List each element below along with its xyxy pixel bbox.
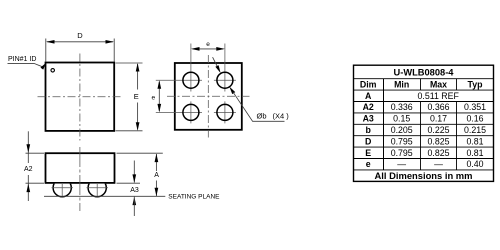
- svg-text:0.336: 0.336: [391, 102, 413, 112]
- pin1 leader arrowhead: [40, 63, 45, 70]
- side view ball 1: [53, 179, 106, 197]
- D dim arrow left: [46, 40, 55, 44]
- pin1 leader line: [8, 63, 43, 66]
- svg-text:b: b: [366, 125, 372, 135]
- svg-text:Max: Max: [430, 79, 447, 89]
- A dimension upper line: [155, 154, 157, 171]
- svg-text:0.825: 0.825: [427, 136, 449, 146]
- table outer border: [354, 65, 494, 181]
- diameter leader upper segment: [213, 57, 218, 68]
- svg-text:E: E: [365, 148, 371, 158]
- A dimension lower line: [155, 181, 157, 197]
- table horizontal line under row D: [354, 146, 494, 148]
- svg-text:0.15: 0.15: [393, 114, 410, 124]
- svg-text:0.825: 0.825: [427, 148, 449, 158]
- ball bottom-left: [183, 104, 199, 120]
- svg-text:(X4 ): (X4 ): [273, 112, 290, 121]
- D extension line left: [45, 39, 47, 62]
- svg-text:Dim: Dim: [360, 79, 377, 89]
- ball TR crosshair vertical / e extension: [224, 44, 226, 92]
- svg-text:A3: A3: [130, 187, 139, 194]
- side view centerline: [79, 147, 81, 211]
- side view body: [46, 153, 115, 183]
- E dim arrow top: [136, 63, 140, 72]
- A extension line: [117, 152, 163, 154]
- top e arrow right: [216, 47, 225, 51]
- svg-text:SEATING PLANE: SEATING PLANE: [168, 194, 220, 201]
- svg-text:e: e: [366, 159, 371, 169]
- A3 arrow down: [132, 174, 136, 183]
- svg-text:0.205: 0.205: [391, 125, 413, 135]
- A3 arrow up: [132, 197, 136, 206]
- A3 extension line: [117, 182, 141, 184]
- svg-text:—: —: [397, 159, 406, 169]
- svg-text:0.225: 0.225: [427, 125, 449, 135]
- D extension line right: [113, 39, 115, 62]
- ball bottom-right: [217, 104, 233, 120]
- diameter leader arrow lower: [229, 87, 235, 95]
- A2 extension line bottom: [26, 182, 45, 184]
- ball top-right: [217, 72, 233, 88]
- table vertical line col1: [383, 79, 385, 170]
- ball TL crosshair horizontal / e extension: [156, 79, 202, 81]
- svg-text:A2: A2: [24, 166, 33, 173]
- table horizontal line under header: [354, 89, 494, 91]
- E dimension line upper: [137, 64, 139, 90]
- ball BL crosshair horizontal / e extension: [156, 111, 202, 113]
- table vertical line col2 upper: [420, 79, 422, 90]
- A3 dimension upper line: [133, 161, 135, 183]
- E extension line top: [116, 62, 143, 64]
- table vertical line col3 upper: [456, 79, 458, 90]
- svg-text:0.795: 0.795: [391, 136, 413, 146]
- svg-text:Min: Min: [394, 79, 409, 89]
- ball BR crosshair horizontal: [214, 111, 236, 113]
- svg-text:Øb: Øb: [257, 112, 267, 121]
- svg-text:D: D: [365, 136, 371, 146]
- svg-text:0.16: 0.16: [466, 114, 483, 124]
- table horizontal line under row A: [354, 101, 494, 103]
- top e dimension line: [193, 48, 224, 50]
- table vertical line col3 lower: [456, 102, 458, 170]
- bottom view package outline: [175, 63, 242, 130]
- table horizontal line under row b: [354, 135, 494, 137]
- left e dimension line: [158, 82, 160, 112]
- svg-text:0.795: 0.795: [391, 148, 413, 158]
- svg-text:Typ: Typ: [468, 79, 484, 89]
- table horizontal line under row e: [354, 169, 494, 171]
- ball top-left: [183, 72, 199, 88]
- svg-text:0.351: 0.351: [464, 102, 486, 112]
- A2 dimension mid line: [27, 175, 29, 201]
- diameter leader arrow upper: [215, 65, 220, 73]
- E extension line bottom: [116, 130, 143, 132]
- A arrow up: [155, 154, 159, 163]
- diameter leader lower segment: [233, 92, 284, 121]
- svg-text:All Dimensions in mm: All Dimensions in mm: [375, 170, 473, 181]
- ball 1 crosshair: [52, 187, 74, 189]
- svg-text:E: E: [134, 92, 139, 101]
- table horizontal line under row A2: [354, 112, 494, 114]
- ball BL crosshair vertical: [190, 101, 192, 123]
- A2 extension line top: [26, 152, 45, 154]
- A2 arrow down: [26, 144, 30, 153]
- svg-text:D: D: [77, 31, 83, 40]
- table horizontal line under row A3: [354, 123, 494, 125]
- A2 dimension upper line: [27, 131, 29, 163]
- svg-text:A: A: [154, 172, 159, 179]
- svg-text:A: A: [365, 91, 372, 101]
- table horizontal line under row E: [354, 158, 494, 160]
- svg-text:0.40: 0.40: [466, 159, 483, 169]
- svg-text:0.81: 0.81: [466, 148, 483, 158]
- side view ball 2: [88, 179, 106, 197]
- table vertical line col2 lower: [420, 102, 422, 170]
- top view horizontal centerline: [38, 96, 123, 98]
- top e arrow left: [191, 47, 200, 51]
- ball BR crosshair vertical: [224, 101, 226, 123]
- left e arrow bottom: [157, 104, 161, 113]
- E dim arrow bottom: [136, 122, 140, 131]
- bottom view vertical centerline: [207, 55, 209, 138]
- svg-text:0.215: 0.215: [464, 125, 486, 135]
- ball TR crosshair horizontal: [214, 79, 236, 81]
- D dim arrow right: [106, 40, 115, 44]
- bottom view horizontal centerline: [167, 95, 250, 97]
- pin 1 indicator circle: [51, 69, 55, 73]
- svg-text:0.511 REF: 0.511 REF: [417, 91, 459, 101]
- A arrow down: [155, 188, 159, 197]
- ball 2 crosshair: [87, 187, 109, 189]
- top view vertical centerline: [79, 54, 81, 141]
- D dimension line: [47, 41, 113, 43]
- A3 dimension lower line: [133, 197, 135, 216]
- top view package outline: [46, 63, 115, 131]
- E dimension line lower: [137, 103, 139, 130]
- svg-text:e: e: [151, 95, 155, 102]
- left e arrow top: [157, 80, 161, 89]
- A2 arrow up: [26, 184, 30, 193]
- svg-text:—: —: [434, 159, 443, 169]
- svg-text:A2: A2: [363, 102, 374, 112]
- svg-text:0.81: 0.81: [466, 136, 483, 146]
- svg-text:e: e: [206, 41, 210, 48]
- ball TL crosshair vertical / e extension: [190, 44, 192, 92]
- svg-text:PIN#1 ID: PIN#1 ID: [8, 56, 36, 63]
- seating plane line: [44, 195, 165, 197]
- table horizontal line under title: [354, 78, 494, 80]
- svg-text:0.17: 0.17: [430, 114, 447, 124]
- svg-text:0.366: 0.366: [427, 102, 449, 112]
- svg-text:U-WLB0808-4: U-WLB0808-4: [394, 68, 455, 78]
- svg-text:A3: A3: [363, 114, 374, 124]
